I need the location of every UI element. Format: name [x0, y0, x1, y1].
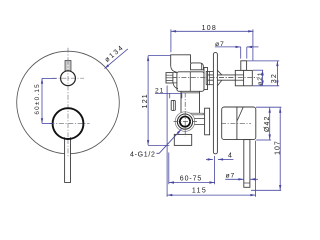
- svg-text:107: 107: [275, 140, 282, 155]
- svg-text:32: 32: [271, 73, 278, 83]
- svg-text:4: 4: [228, 152, 232, 159]
- svg-text:115: 115: [192, 187, 207, 194]
- svg-text:ø21: ø21: [257, 71, 264, 85]
- svg-text:108: 108: [202, 25, 217, 32]
- svg-text:21: 21: [155, 87, 164, 94]
- svg-text:4-G1/2: 4-G1/2: [130, 151, 156, 158]
- svg-text:60-75: 60-75: [180, 175, 202, 182]
- svg-text:121: 121: [142, 93, 149, 108]
- svg-text:Ø42: Ø42: [264, 115, 271, 132]
- svg-text:ø7: ø7: [215, 41, 225, 48]
- svg-text:ø7: ø7: [226, 172, 236, 179]
- svg-text:60±0.15: 60±0.15: [34, 83, 41, 114]
